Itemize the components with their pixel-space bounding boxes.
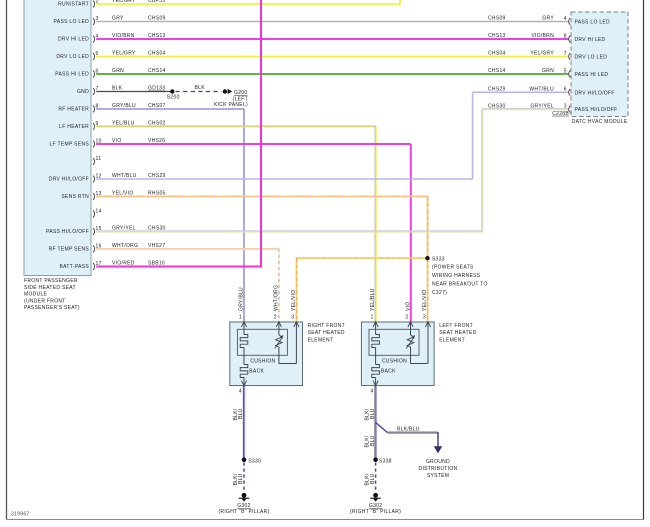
svg-text:ELEMENT: ELEMENT: [308, 338, 334, 344]
svg-text:CUSHION: CUSHION: [250, 359, 275, 365]
svg-text:CHS30: CHS30: [148, 226, 166, 232]
svg-text:BACK: BACK: [249, 369, 264, 375]
svg-text:DRV HI/LO/OFF: DRV HI/LO/OFF: [49, 177, 89, 183]
svg-text:LF HEATER: LF HEATER: [59, 124, 89, 130]
svg-text:GROUND: GROUND: [426, 459, 450, 465]
svg-text:YEL/GRY: YEL/GRY: [112, 0, 136, 4]
svg-text:YEL/GRY: YEL/GRY: [530, 51, 554, 57]
svg-text:VHS26: VHS26: [148, 138, 165, 144]
svg-text:FRONT PASSENGER: FRONT PASSENGER: [24, 278, 78, 284]
svg-text:CBP55: CBP55: [148, 0, 165, 4]
svg-text:C327): C327): [432, 290, 447, 296]
svg-text:4: 4: [564, 16, 567, 22]
svg-text:GRY/BLU: GRY/BLU: [112, 103, 136, 109]
svg-text:1: 1: [239, 315, 242, 321]
svg-text:SENS RTN: SENS RTN: [61, 194, 89, 200]
svg-text:BLU: BLU: [370, 473, 376, 484]
svg-text:VIO: VIO: [405, 301, 411, 311]
svg-text:11: 11: [96, 156, 102, 162]
svg-text:SIDE HEATED SEAT: SIDE HEATED SEAT: [24, 285, 76, 291]
svg-text:PASSENGER'S SEAT): PASSENGER'S SEAT): [24, 305, 80, 311]
svg-text:3: 3: [291, 315, 294, 321]
svg-text:15: 15: [96, 226, 102, 232]
svg-text:GRN: GRN: [112, 68, 124, 74]
svg-text:DISTRIBUTION: DISTRIBUTION: [419, 466, 458, 472]
svg-text:YEL/BLU: YEL/BLU: [370, 288, 376, 311]
svg-text:CHS13: CHS13: [148, 33, 166, 39]
svg-text:BLU: BLU: [370, 408, 376, 419]
svg-text:CHS09: CHS09: [488, 16, 506, 22]
svg-text:17: 17: [96, 261, 102, 267]
svg-text:CHS04: CHS04: [488, 51, 506, 57]
svg-text:PASS HI LED: PASS HI LED: [55, 72, 89, 78]
svg-text:DRV LO LED: DRV LO LED: [575, 55, 608, 61]
svg-text:DRV HI LED: DRV HI LED: [575, 37, 606, 43]
svg-text:10: 10: [96, 138, 102, 144]
svg-text:SBB16: SBB16: [148, 261, 165, 267]
svg-text:PASS LO LED: PASS LO LED: [54, 19, 90, 25]
svg-text:DATC HVAC MODULE: DATC HVAC MODULE: [572, 119, 628, 125]
svg-text:SEAT HEATED: SEAT HEATED: [308, 330, 345, 336]
svg-text:1: 1: [371, 315, 374, 321]
svg-text:KICK PANEL): KICK PANEL): [214, 102, 248, 108]
svg-text:YEL/VIO: YEL/VIO: [112, 191, 134, 197]
svg-text:YEL/VIO: YEL/VIO: [291, 289, 297, 311]
svg-text:BLK: BLK: [195, 85, 206, 91]
svg-text:WHT/ORG: WHT/ORG: [112, 243, 138, 249]
svg-text:(RIGHT "B" PILLAR): (RIGHT "B" PILLAR): [350, 509, 401, 515]
svg-text:RF HEATER: RF HEATER: [58, 107, 89, 113]
svg-text:5: 5: [564, 68, 567, 74]
svg-text:GRY/YEL: GRY/YEL: [112, 226, 136, 232]
svg-text:(POWER SEATS: (POWER SEATS: [432, 264, 474, 270]
svg-text:PASS HI/LO/OFF: PASS HI/LO/OFF: [575, 107, 618, 113]
svg-text:ELEMENT: ELEMENT: [439, 338, 465, 344]
svg-text:SYSTEM: SYSTEM: [427, 473, 449, 479]
svg-text:GND: GND: [77, 89, 89, 95]
svg-text:VIO/BRN: VIO/BRN: [112, 33, 135, 39]
svg-text:BLU: BLU: [238, 408, 244, 419]
svg-text:8: 8: [96, 103, 99, 109]
svg-text:RUN/START: RUN/START: [58, 2, 89, 8]
svg-text:4: 4: [371, 389, 374, 395]
svg-text:BACK: BACK: [381, 369, 396, 375]
svg-text:WHT/ORG: WHT/ORG: [273, 285, 279, 311]
svg-text:7: 7: [564, 51, 567, 57]
svg-text:GRY/YEL: GRY/YEL: [530, 103, 554, 109]
svg-text:319967: 319967: [11, 512, 30, 518]
svg-text:RIGHT FRONT: RIGHT FRONT: [308, 323, 345, 329]
svg-text:YEL/BLU: YEL/BLU: [112, 121, 135, 127]
svg-text:PASS HI/LO/OFF: PASS HI/LO/OFF: [46, 229, 89, 235]
svg-text:9: 9: [96, 121, 99, 127]
svg-text:VIO/RED: VIO/RED: [112, 261, 135, 267]
svg-text:DRV HI/LO/OFF: DRV HI/LO/OFF: [575, 90, 615, 96]
svg-text:BLK/BLU: BLK/BLU: [397, 427, 420, 433]
svg-text:BLK: BLK: [112, 86, 123, 92]
svg-text:CHS14: CHS14: [148, 68, 166, 74]
svg-text:12: 12: [96, 173, 102, 179]
svg-text:8: 8: [564, 33, 567, 39]
svg-text:GRY/BLU: GRY/BLU: [239, 287, 245, 311]
svg-text:DRV LO LED: DRV LO LED: [56, 54, 89, 60]
svg-text:DRV HI LED: DRV HI LED: [58, 37, 89, 43]
svg-text:CUSHION: CUSHION: [382, 359, 407, 365]
svg-text:VHS27: VHS27: [148, 243, 165, 249]
svg-text:CHS30: CHS30: [488, 103, 506, 109]
svg-text:GRY: GRY: [112, 16, 124, 22]
svg-text:2: 2: [96, 0, 99, 4]
svg-text:6: 6: [564, 87, 567, 93]
svg-text:PASS LO LED: PASS LO LED: [575, 20, 611, 26]
svg-text:3: 3: [423, 315, 426, 321]
svg-text:S338: S338: [379, 459, 392, 465]
svg-text:CHS29: CHS29: [148, 173, 166, 179]
svg-text:(UNDER FRONT: (UNDER FRONT: [24, 298, 66, 304]
svg-text:CHS29: CHS29: [488, 87, 506, 93]
svg-text:6: 6: [96, 68, 99, 74]
svg-text:GRN: GRN: [542, 68, 554, 74]
svg-text:GD133: GD133: [148, 86, 165, 92]
svg-text:WHT/BLU: WHT/BLU: [529, 87, 554, 93]
svg-text:YEL/VIO: YEL/VIO: [422, 289, 428, 311]
svg-text:CHS04: CHS04: [148, 51, 166, 57]
svg-text:BLU: BLU: [238, 473, 244, 484]
svg-text:CHS07: CHS07: [148, 103, 166, 109]
svg-text:VIO: VIO: [112, 138, 122, 144]
svg-text:LF TEMP SENS: LF TEMP SENS: [49, 142, 89, 148]
svg-text:CHS13: CHS13: [488, 33, 506, 39]
svg-text:NEAR BREAKOUT TO: NEAR BREAKOUT TO: [432, 282, 488, 288]
svg-text:SEAT HEATED: SEAT HEATED: [439, 330, 476, 336]
svg-text:WHT/BLU: WHT/BLU: [112, 173, 137, 179]
svg-text:5: 5: [96, 51, 99, 57]
svg-text:LEFT FRONT: LEFT FRONT: [439, 323, 473, 329]
svg-text:13: 13: [96, 191, 102, 197]
svg-text:PASS HI LED: PASS HI LED: [575, 72, 609, 78]
svg-text:RHS05: RHS05: [148, 191, 166, 197]
svg-text:WIRING HARNESS: WIRING HARNESS: [432, 273, 481, 279]
svg-text:MODULE: MODULE: [24, 292, 48, 298]
svg-text:GRY: GRY: [542, 16, 554, 22]
svg-text:(RIGHT "B" PILLAR): (RIGHT "B" PILLAR): [218, 509, 269, 515]
svg-text:S200: S200: [167, 95, 180, 101]
svg-text:C228B: C228B: [552, 111, 569, 117]
svg-text:VIO/BRN: VIO/BRN: [531, 33, 554, 39]
svg-text:BLU: BLU: [370, 435, 376, 446]
svg-text:RF TEMP SENS: RF TEMP SENS: [49, 247, 90, 253]
svg-text:4: 4: [239, 389, 242, 395]
svg-text:2: 2: [274, 315, 277, 321]
svg-text:14: 14: [96, 208, 102, 214]
svg-text:2: 2: [405, 315, 408, 321]
svg-text:YEL/GRY: YEL/GRY: [112, 51, 136, 57]
svg-text:BATT-PASS: BATT-PASS: [60, 264, 90, 270]
svg-text:CHS14: CHS14: [488, 68, 506, 74]
svg-text:3: 3: [564, 104, 567, 110]
svg-text:7: 7: [96, 86, 99, 92]
svg-text:G200: G200: [234, 90, 247, 96]
svg-text:S333: S333: [432, 256, 445, 262]
svg-text:16: 16: [96, 243, 102, 249]
svg-text:CHS09: CHS09: [148, 16, 166, 22]
svg-text:S330: S330: [248, 459, 261, 465]
svg-text:CHS02: CHS02: [148, 121, 166, 127]
svg-text:4: 4: [96, 33, 99, 39]
svg-text:3: 3: [96, 16, 99, 22]
